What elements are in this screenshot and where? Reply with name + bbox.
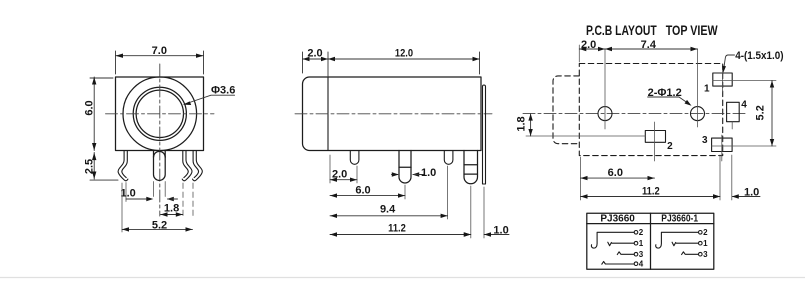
dimension 1.8 (front) xyxy=(183,183,193,218)
svg-text:1.8: 1.8 xyxy=(164,202,179,214)
bushing ring inner (hole 3.6) xyxy=(136,90,183,137)
dimension 2.5 left xyxy=(90,153,118,181)
pad 2 xyxy=(645,131,665,143)
dimension 11.2 (pcb) xyxy=(719,155,721,200)
svg-text:12.0: 12.0 xyxy=(395,48,413,60)
internal line 2.0 xyxy=(327,77,329,151)
svg-text:2.5: 2.5 xyxy=(83,159,95,174)
side pin 3 xyxy=(444,151,453,165)
dimension 1.0 (side right) xyxy=(483,187,485,238)
front body box xyxy=(116,77,204,151)
dimension 7.4 (pcb) xyxy=(605,48,698,50)
dimension 6.0 (side) xyxy=(404,185,406,199)
dimension 2.0 (side top) xyxy=(303,52,329,77)
svg-text:4-(1.5x1.0): 4-(1.5x1.0) xyxy=(735,50,783,62)
svg-text:4: 4 xyxy=(741,100,747,111)
dimension 1.0 (pcb right) xyxy=(731,155,733,200)
svg-text:1.0: 1.0 xyxy=(493,225,508,237)
svg-text:3: 3 xyxy=(703,250,708,259)
faint scan line bottom xyxy=(0,277,805,279)
right hook leg B xyxy=(193,151,203,181)
svg-text:2.0: 2.0 xyxy=(307,48,322,60)
svg-text:6.0: 6.0 xyxy=(83,100,95,115)
bushing ring outer xyxy=(133,87,186,140)
table frame xyxy=(587,213,714,269)
pad 4 xyxy=(727,102,740,121)
sleeve hook to terminal 2 xyxy=(656,232,699,248)
svg-text:2: 2 xyxy=(703,228,708,237)
svg-text:PJ3660-1: PJ3660-1 xyxy=(661,213,698,224)
horizontal centerline xyxy=(106,113,215,115)
dimension 1.8 (pcb left) xyxy=(526,135,645,137)
hole 1 xyxy=(598,107,612,121)
vertical centerline xyxy=(159,64,161,216)
svg-text:2.0: 2.0 xyxy=(581,39,596,51)
svg-text:P.C.B LAYOUT: P.C.B LAYOUT xyxy=(586,23,657,39)
tip switch to terminal 1 xyxy=(672,242,676,246)
dimension 5.2 (pcb right) xyxy=(712,81,776,147)
left cell schematic PJ3660 xyxy=(591,231,637,266)
contact to terminal 3 xyxy=(682,252,699,255)
side pin 1 xyxy=(350,151,359,165)
right cell schematic PJ3660-1 xyxy=(656,231,702,257)
svg-text:3: 3 xyxy=(702,135,708,146)
dimension 2.0 (side bottom) xyxy=(330,155,357,183)
dimension 7.0 top xyxy=(116,51,204,74)
svg-text:5.2: 5.2 xyxy=(152,219,167,231)
dimension 6.0 (pcb) xyxy=(580,157,582,200)
side pin 4 xyxy=(464,151,478,184)
outer circle xyxy=(123,77,197,151)
left hook leg xyxy=(118,151,128,181)
svg-text:1.0: 1.0 xyxy=(121,188,136,200)
svg-text:Φ3.6: Φ3.6 xyxy=(211,85,235,97)
svg-text:1.0: 1.0 xyxy=(744,186,759,198)
svg-text:PJ3660: PJ3660 xyxy=(600,214,635,225)
pcb body dashed outline xyxy=(579,64,722,156)
svg-text:1: 1 xyxy=(703,239,708,248)
svg-text:1: 1 xyxy=(639,239,644,248)
dimension 1.0 (side pin2) xyxy=(392,174,398,176)
svg-text:3: 3 xyxy=(639,250,644,259)
side body xyxy=(303,77,482,151)
tip switch to terminal 1 xyxy=(608,242,612,246)
side centerline xyxy=(295,113,492,115)
dimension 11.2 (side) xyxy=(470,186,472,238)
svg-text:7.0: 7.0 xyxy=(152,45,167,57)
sleeve hook to terminal 2 xyxy=(591,232,634,248)
svg-text:4: 4 xyxy=(639,260,644,269)
contact to terminal 3 xyxy=(617,252,634,255)
terminal circles xyxy=(634,231,638,235)
svg-text:2: 2 xyxy=(639,228,644,237)
svg-text:9.4: 9.4 xyxy=(380,203,396,215)
svg-text:1.8: 1.8 xyxy=(515,116,527,131)
svg-text:11.2: 11.2 xyxy=(642,186,660,198)
svg-text:2: 2 xyxy=(667,141,673,152)
svg-text:1: 1 xyxy=(704,84,710,95)
side pin 2 xyxy=(399,151,411,184)
svg-text:7.4: 7.4 xyxy=(641,39,657,51)
svg-text:1.0: 1.0 xyxy=(421,167,436,179)
terminal circles xyxy=(699,231,703,235)
side lock plate xyxy=(483,85,486,184)
dimension 12.0 (side top) xyxy=(328,52,480,74)
svg-text:5.2: 5.2 xyxy=(754,105,766,120)
svg-text:11.2: 11.2 xyxy=(388,223,406,235)
svg-text:2.0: 2.0 xyxy=(332,168,347,180)
pad 3 xyxy=(712,138,733,151)
svg-text:6.0: 6.0 xyxy=(355,184,370,196)
dimension 2.0 (pcb) xyxy=(578,45,580,62)
dimension 1.0 (front pin) xyxy=(125,183,127,202)
dimension 9.4 (side) xyxy=(447,166,449,219)
pad 1 xyxy=(713,73,732,86)
hole 2 xyxy=(691,107,705,121)
dimension 5.2 (front) xyxy=(121,183,123,232)
svg-text:TOP VIEW: TOP VIEW xyxy=(666,23,718,39)
dimension 6.0 left xyxy=(90,77,113,151)
center pin xyxy=(154,151,166,181)
pcb left protrusion dashed xyxy=(553,76,579,144)
svg-text:6.0: 6.0 xyxy=(608,167,623,179)
center pin extension lines xyxy=(154,182,166,197)
right hook leg A xyxy=(182,151,192,181)
pcb centerline xyxy=(523,113,747,115)
contact to terminal 4 xyxy=(602,262,634,265)
